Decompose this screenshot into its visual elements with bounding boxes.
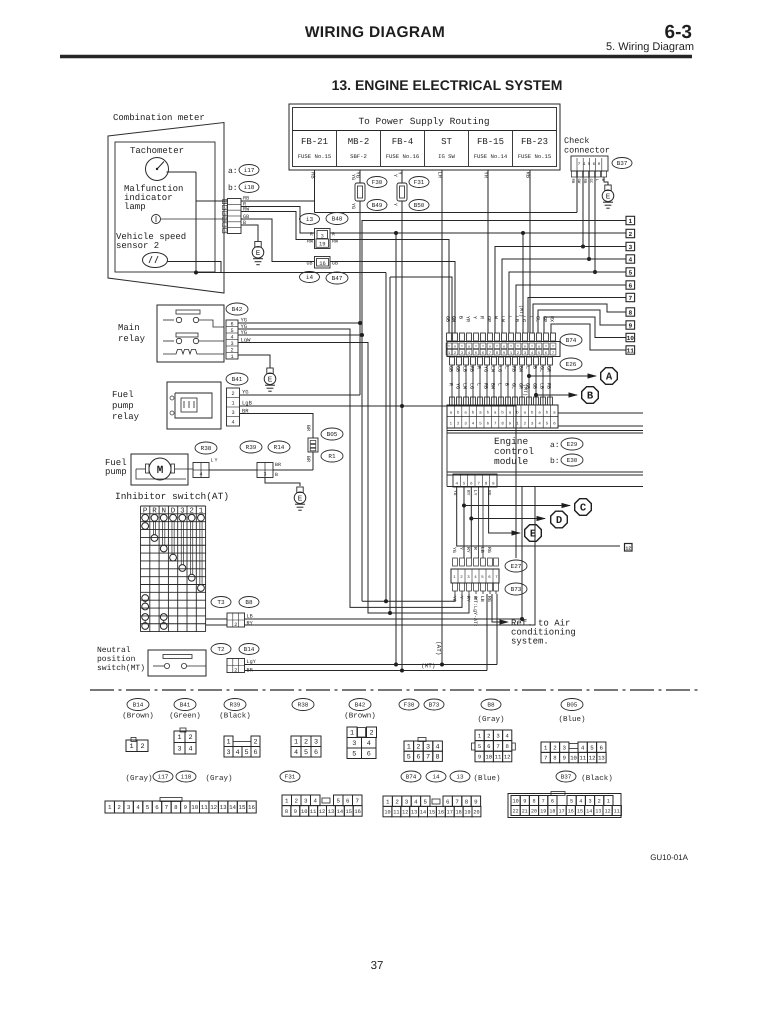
svg-text:Fuel: Fuel bbox=[112, 390, 134, 400]
svg-text:7: 7 bbox=[552, 351, 554, 356]
svg-text:BR: BR bbox=[275, 462, 281, 468]
svg-text:6-3: 6-3 bbox=[665, 22, 692, 43]
main relay internals bbox=[176, 310, 200, 314]
svg-text:6: 6 bbox=[487, 743, 490, 750]
check connector wire to terminal 4 bbox=[588, 177, 590, 259]
svg-text:C: C bbox=[580, 503, 587, 515]
svg-text:A: A bbox=[606, 372, 613, 384]
svg-text:L: L bbox=[476, 383, 482, 386]
ground E check connector bbox=[605, 185, 611, 191]
svg-text:b: b bbox=[224, 206, 226, 211]
svg-text:LY: LY bbox=[472, 490, 477, 496]
svg-text:(Black): (Black) bbox=[219, 712, 251, 721]
wire LB bbox=[245, 618, 523, 620]
svg-text:sensor 2: sensor 2 bbox=[116, 241, 159, 251]
E27 bottom pin cells bbox=[453, 583, 458, 591]
svg-text:b: b bbox=[224, 212, 226, 217]
svg-text:8: 8 bbox=[436, 754, 440, 762]
fuel pump relay box bbox=[167, 382, 221, 429]
legend connector B8 pins bbox=[475, 730, 484, 741]
svg-text:LW: LW bbox=[462, 383, 468, 389]
svg-text:GR: GR bbox=[486, 316, 492, 322]
wire YR from FB-15 bbox=[487, 170, 489, 333]
svg-text:F30: F30 bbox=[404, 702, 415, 709]
svg-text:RX: RX bbox=[549, 316, 555, 322]
connector R38 oval bbox=[195, 442, 217, 454]
svg-text:Y: Y bbox=[458, 547, 464, 550]
svg-text:lamp: lamp bbox=[124, 202, 146, 212]
svg-text:17: 17 bbox=[447, 809, 453, 815]
legend connector B37 pins bbox=[508, 794, 621, 818]
svg-text:B14: B14 bbox=[133, 702, 144, 709]
speed sensor wires bbox=[168, 262, 222, 273]
svg-text:2: 2 bbox=[231, 391, 234, 397]
connector E29 oval bbox=[561, 438, 583, 450]
wire BR to fuse B05 bbox=[273, 469, 313, 471]
svg-text:4: 4 bbox=[136, 804, 140, 811]
svg-text:6: 6 bbox=[314, 749, 318, 757]
ECM bank top pin cells bbox=[447, 333, 452, 341]
svg-text:MB-2: MB-2 bbox=[348, 137, 370, 147]
svg-text:R: R bbox=[310, 232, 313, 238]
svg-text:3: 3 bbox=[628, 244, 632, 251]
legend connector R38 oval bbox=[292, 699, 314, 711]
svg-text:B: B bbox=[275, 472, 278, 478]
svg-text:13: 13 bbox=[411, 809, 417, 815]
inhibitor switch contacts row1 bbox=[142, 514, 149, 521]
svg-text:3: 3 bbox=[177, 746, 181, 754]
svg-text:R1: R1 bbox=[328, 453, 336, 460]
svg-text:4: 4 bbox=[188, 746, 192, 754]
main relay pin strip bbox=[226, 320, 238, 359]
svg-text:WIRING DIAGRAM: WIRING DIAGRAM bbox=[305, 24, 445, 41]
svg-text:a:: a: bbox=[228, 167, 238, 176]
terminal box 9 bbox=[626, 321, 635, 329]
separator chain line bbox=[90, 689, 114, 691]
svg-text:E: E bbox=[606, 194, 611, 202]
svg-text:6: 6 bbox=[346, 797, 350, 804]
svg-text:10: 10 bbox=[485, 754, 492, 761]
terminal box 2 lower bbox=[625, 544, 633, 552]
svg-text:4: 4 bbox=[436, 744, 440, 752]
wire branch R down bbox=[522, 233, 524, 333]
svg-text:2: 2 bbox=[416, 744, 420, 752]
svg-text:3: 3 bbox=[230, 341, 233, 347]
connector i19 bbox=[315, 229, 331, 249]
svg-text:LgB: LgB bbox=[242, 400, 253, 407]
power box column divider bbox=[468, 131, 470, 167]
svg-text:2: 2 bbox=[369, 730, 373, 738]
fuse F31 symbol bbox=[397, 183, 407, 201]
svg-text:FB-23: FB-23 bbox=[521, 137, 548, 147]
legend connector B37 oval bbox=[556, 771, 576, 782]
svg-text:1: 1 bbox=[294, 739, 298, 747]
svg-text:2: 2 bbox=[188, 734, 192, 742]
connector R39/R14 block bbox=[257, 463, 273, 478]
terminal box 7 bbox=[626, 293, 635, 301]
connector B73 oval bbox=[505, 583, 527, 595]
svg-text:YR: YR bbox=[483, 172, 490, 179]
wire terminal 6 bbox=[516, 285, 626, 333]
svg-text:YG: YG bbox=[241, 329, 248, 336]
svg-text:(MT): (MT) bbox=[421, 663, 435, 670]
connector B05 oval bbox=[321, 428, 343, 440]
svg-text:position: position bbox=[97, 655, 136, 664]
wire BR neutral switch bbox=[245, 670, 488, 672]
terminal box 6 bbox=[626, 281, 635, 289]
svg-text:FB-15: FB-15 bbox=[477, 137, 504, 147]
svg-text:B8: B8 bbox=[245, 599, 253, 606]
svg-text:2: 2 bbox=[117, 804, 121, 811]
svg-text:a:: a: bbox=[550, 441, 560, 450]
svg-text:(MT): (MT) bbox=[518, 305, 524, 317]
legend connector B74b oval bbox=[401, 771, 421, 782]
svg-text:14: 14 bbox=[586, 808, 592, 814]
connector B74 oval bbox=[560, 334, 582, 346]
svg-text:b: b bbox=[224, 201, 226, 206]
svg-text:B37: B37 bbox=[617, 160, 628, 167]
svg-text:B05: B05 bbox=[567, 702, 578, 709]
svg-text:E29: E29 bbox=[567, 441, 578, 448]
svg-text:Y: Y bbox=[392, 203, 398, 206]
malfunction indicator lamp symbol bbox=[152, 215, 161, 224]
svg-text:1: 1 bbox=[108, 804, 112, 811]
svg-text:E: E bbox=[298, 496, 303, 504]
wire YG from MB-2 bbox=[359, 170, 361, 183]
svg-text:6: 6 bbox=[551, 798, 554, 804]
connector B49 oval bbox=[367, 200, 387, 211]
svg-text:4: 4 bbox=[314, 797, 318, 804]
svg-text:21: 21 bbox=[522, 808, 528, 814]
svg-text:RY: RY bbox=[465, 547, 471, 553]
wire E bbox=[489, 487, 520, 533]
wire terminal 10 bbox=[544, 317, 626, 338]
svg-text:13: 13 bbox=[598, 755, 605, 762]
legend connector R39 oval bbox=[224, 699, 246, 711]
legend connector R39 pins bbox=[224, 736, 233, 747]
wire YG main relay pin6 bbox=[238, 322, 360, 324]
svg-text:7: 7 bbox=[628, 295, 632, 302]
svg-text:b: b bbox=[224, 218, 226, 223]
svg-text:R: R bbox=[332, 232, 335, 238]
svg-text:IG SW: IG SW bbox=[438, 153, 455, 160]
svg-text:5: 5 bbox=[146, 804, 150, 811]
svg-text:4: 4 bbox=[579, 798, 582, 804]
connector B50 oval bbox=[409, 200, 429, 211]
fuel pump relay internals bbox=[175, 393, 212, 418]
svg-text:Check: Check bbox=[564, 136, 590, 146]
arrow A bbox=[527, 374, 531, 378]
svg-text:16: 16 bbox=[319, 260, 326, 267]
svg-text:F31: F31 bbox=[285, 774, 296, 781]
svg-text:1: 1 bbox=[231, 401, 234, 407]
svg-text:13: 13 bbox=[220, 804, 227, 811]
ref to air conditioning wire bbox=[492, 594, 501, 622]
svg-text:pump: pump bbox=[112, 401, 134, 411]
svg-text:7: 7 bbox=[165, 804, 169, 811]
wire YG main relay pin4 bbox=[238, 334, 362, 336]
svg-text:LG: LG bbox=[469, 383, 475, 389]
fuse B05 symbol bbox=[308, 438, 318, 452]
wire LgW main relay pin3 bbox=[238, 343, 469, 614]
svg-text:6: 6 bbox=[253, 749, 257, 757]
check connector wire to RB bus bbox=[576, 177, 578, 213]
svg-text:LB: LB bbox=[462, 366, 468, 372]
terminal box 3 bbox=[626, 242, 635, 250]
wire terminal 7 bbox=[528, 298, 626, 334]
legend connector i17/i18 pins bbox=[160, 798, 182, 802]
svg-text:1: 1 bbox=[544, 744, 548, 751]
svg-text:4: 4 bbox=[199, 472, 202, 478]
svg-text:19: 19 bbox=[464, 809, 470, 815]
connector strip E27 bbox=[451, 569, 499, 583]
svg-text:GW: GW bbox=[451, 316, 457, 322]
svg-text:R38: R38 bbox=[298, 702, 309, 709]
meter wire RW to connector 19 bbox=[241, 212, 315, 240]
svg-text:3: 3 bbox=[405, 798, 409, 805]
svg-text:GB: GB bbox=[306, 261, 312, 267]
svg-text:RB: RB bbox=[570, 179, 575, 184]
svg-text:9: 9 bbox=[523, 798, 526, 804]
svg-text:GB: GB bbox=[448, 366, 454, 372]
svg-text:i17: i17 bbox=[158, 774, 169, 781]
E27 top pin cells bbox=[453, 558, 458, 566]
connector B14 oval bbox=[239, 644, 259, 655]
svg-text:10: 10 bbox=[627, 335, 635, 342]
svg-text:(Blue): (Blue) bbox=[558, 715, 585, 724]
meter connector block bbox=[228, 199, 242, 234]
svg-text:Inhibitor switch(AT): Inhibitor switch(AT) bbox=[115, 491, 229, 502]
svg-text:BR: BR bbox=[305, 456, 311, 462]
svg-text:B37: B37 bbox=[561, 774, 572, 781]
svg-text:(Green): (Green) bbox=[169, 712, 201, 721]
svg-text:B: B bbox=[504, 383, 510, 386]
ECM connector strip E29 bbox=[447, 405, 558, 428]
svg-text:module: module bbox=[494, 456, 529, 467]
svg-text:E: E bbox=[268, 377, 273, 385]
connector i16 bbox=[315, 257, 331, 269]
check connector ground wire bbox=[604, 177, 608, 185]
svg-text:YG: YG bbox=[350, 174, 356, 180]
legend connector F30 oval bbox=[399, 699, 419, 710]
svg-text:B50: B50 bbox=[414, 202, 425, 209]
legend connector i3b oval bbox=[450, 771, 470, 782]
terminal box 8 bbox=[626, 308, 635, 316]
svg-text:7: 7 bbox=[544, 755, 547, 762]
svg-text:16: 16 bbox=[354, 809, 360, 815]
svg-text:(Brown): (Brown) bbox=[122, 712, 154, 721]
nested corner wire bbox=[389, 277, 391, 613]
svg-text:5: 5 bbox=[407, 754, 411, 762]
meter wire B to ground bbox=[241, 225, 258, 242]
connector T3/B8 block bbox=[227, 613, 245, 627]
svg-text:2: 2 bbox=[304, 739, 308, 747]
ground E meter bbox=[255, 242, 261, 248]
svg-text:9: 9 bbox=[628, 322, 632, 329]
svg-text:RB: RB bbox=[546, 383, 552, 389]
wire terminal 8 bbox=[533, 304, 626, 333]
svg-text:Tachometer: Tachometer bbox=[130, 146, 184, 156]
svg-text:5: 5 bbox=[478, 743, 481, 750]
connector i4 oval bbox=[300, 272, 320, 283]
inhibitor switch lower contacts bbox=[142, 595, 149, 602]
svg-text:R: R bbox=[472, 547, 478, 550]
svg-text:11: 11 bbox=[201, 804, 208, 811]
ground E fuel pump bbox=[297, 487, 303, 493]
svg-text:5. Wiring Diagram: 5. Wiring Diagram bbox=[606, 41, 694, 53]
svg-text:L: L bbox=[497, 383, 503, 386]
bank feeder wires bbox=[478, 487, 480, 558]
ground E main relay bbox=[267, 368, 273, 374]
wire RB from FB-23 bbox=[529, 170, 531, 333]
svg-text:14: 14 bbox=[229, 804, 236, 811]
svg-text:BR: BR bbox=[242, 408, 249, 415]
svg-text:B41: B41 bbox=[180, 702, 191, 709]
svg-text:pump: pump bbox=[105, 467, 127, 477]
svg-text:(Brown): (Brown) bbox=[344, 712, 376, 721]
svg-text:FB-4: FB-4 bbox=[392, 137, 414, 147]
svg-text:RG: RG bbox=[486, 596, 492, 602]
svg-text:FUSE No.15: FUSE No.15 bbox=[298, 153, 332, 160]
svg-text:7: 7 bbox=[455, 798, 459, 805]
wire BR below fuse bbox=[312, 452, 314, 470]
legend connector R38 pins bbox=[291, 736, 301, 747]
svg-text:7: 7 bbox=[542, 798, 545, 804]
connector B8 oval bbox=[239, 597, 259, 608]
svg-text:B: B bbox=[458, 316, 464, 319]
combination meter inner box bbox=[115, 142, 215, 272]
svg-text:3: 3 bbox=[263, 472, 266, 478]
svg-text:B: B bbox=[532, 366, 538, 369]
wire terminal 11 bbox=[551, 324, 626, 350]
legend connector B41 pins bbox=[180, 728, 186, 732]
legend connector i4b oval bbox=[426, 771, 446, 782]
svg-text:B42: B42 bbox=[355, 702, 366, 709]
arrow B bbox=[534, 393, 538, 397]
connector R39 oval bbox=[240, 441, 262, 453]
svg-text:B05: B05 bbox=[327, 431, 338, 438]
svg-text:5: 5 bbox=[628, 269, 632, 276]
svg-text:LW: LW bbox=[490, 366, 496, 372]
svg-text:LB: LB bbox=[539, 383, 545, 389]
svg-text:B73: B73 bbox=[511, 586, 522, 593]
svg-text:(Black): (Black) bbox=[581, 774, 613, 783]
svg-text:6: 6 bbox=[155, 804, 159, 811]
svg-text:T2: T2 bbox=[217, 646, 225, 653]
svg-text:2: 2 bbox=[487, 732, 490, 739]
svg-text:2: 2 bbox=[295, 797, 299, 804]
power box column divider bbox=[512, 131, 514, 167]
svg-text:b: b bbox=[224, 230, 226, 235]
svg-text:11: 11 bbox=[579, 755, 586, 762]
svg-text:F31: F31 bbox=[414, 179, 425, 186]
svg-text:E27: E27 bbox=[511, 563, 522, 570]
svg-text:8: 8 bbox=[532, 798, 535, 804]
wire LR from ST bbox=[441, 170, 443, 665]
ECM lower pin strip bbox=[453, 474, 497, 487]
svg-text:B: B bbox=[587, 391, 594, 403]
svg-text:YR: YR bbox=[465, 316, 471, 322]
svg-text:2: 2 bbox=[230, 347, 233, 353]
legend connector B8 oval bbox=[481, 699, 501, 710]
legend connector B41 oval bbox=[174, 699, 196, 711]
svg-text:5: 5 bbox=[424, 798, 428, 805]
svg-text:10: 10 bbox=[512, 798, 518, 804]
legend connector B14 oval bbox=[127, 699, 149, 711]
legend connector F30/B73 pins bbox=[418, 738, 426, 742]
svg-text:1: 1 bbox=[177, 734, 181, 742]
svg-text:i17: i17 bbox=[244, 167, 255, 174]
svg-text:4: 4 bbox=[414, 798, 418, 805]
svg-text:B73: B73 bbox=[429, 702, 440, 709]
legend connector F31 oval bbox=[280, 771, 300, 782]
svg-text:B74: B74 bbox=[566, 337, 577, 344]
svg-text:switch(MT): switch(MT) bbox=[97, 664, 145, 673]
svg-text:RB: RB bbox=[469, 366, 475, 372]
svg-text:(Gray): (Gray) bbox=[205, 774, 232, 783]
svg-text:R39: R39 bbox=[246, 444, 257, 451]
svg-text:1: 1 bbox=[628, 218, 632, 225]
wire terminal 5 bbox=[509, 272, 626, 333]
svg-text:FB-21: FB-21 bbox=[301, 137, 328, 147]
svg-text:19: 19 bbox=[540, 808, 546, 814]
svg-text:17: 17 bbox=[559, 808, 565, 814]
svg-text:1: 1 bbox=[129, 743, 133, 751]
connector B47 oval bbox=[326, 272, 348, 284]
combination meter trapezoid outline bbox=[108, 123, 224, 294]
svg-text:Y: Y bbox=[472, 316, 478, 319]
svg-text:GL: GL bbox=[511, 383, 517, 389]
svg-text:9: 9 bbox=[184, 804, 188, 811]
svg-text:14: 14 bbox=[337, 809, 343, 815]
fuse F30 symbol bbox=[355, 183, 365, 201]
svg-text:b: b bbox=[224, 224, 226, 229]
svg-text:8: 8 bbox=[628, 309, 632, 316]
legend connector B05 oval bbox=[561, 699, 583, 711]
wire LgB fuel pump relay bbox=[240, 406, 517, 558]
resistor R1 oval bbox=[321, 450, 343, 462]
terminal box 10 bbox=[626, 333, 635, 341]
svg-text:LW: LW bbox=[500, 316, 506, 322]
legend connector B73b oval bbox=[424, 699, 444, 710]
svg-text:4: 4 bbox=[581, 744, 585, 751]
svg-text:FUSE No.15: FUSE No.15 bbox=[518, 153, 552, 160]
svg-text:4: 4 bbox=[230, 334, 233, 340]
svg-text:Neutral: Neutral bbox=[97, 646, 131, 655]
svg-text:B48: B48 bbox=[332, 216, 343, 223]
svg-text:6: 6 bbox=[446, 798, 450, 805]
wire LgY bbox=[245, 664, 498, 666]
svg-text:b:: b: bbox=[228, 184, 238, 193]
check connector wire to terminal 3 bbox=[582, 177, 584, 247]
svg-text:B8: B8 bbox=[487, 702, 495, 709]
svg-text:8: 8 bbox=[506, 743, 509, 750]
terminal box 1 bbox=[626, 216, 635, 224]
svg-text:connector: connector bbox=[564, 146, 610, 156]
svg-text:1: 1 bbox=[230, 354, 233, 360]
vehicle speed sensor symbol bbox=[143, 253, 168, 268]
svg-text:L: L bbox=[528, 316, 534, 319]
svg-text:GL: GL bbox=[535, 316, 541, 322]
svg-text:11: 11 bbox=[393, 809, 399, 815]
terminal box 11 bbox=[626, 346, 635, 354]
svg-text:SBF-2: SBF-2 bbox=[350, 153, 367, 160]
wire to terminal box 2 lower bbox=[457, 487, 620, 546]
meter wire GB to connector 16 bbox=[241, 219, 315, 262]
svg-text:9: 9 bbox=[474, 798, 478, 805]
junction dots wires 2-5 bbox=[521, 231, 525, 235]
svg-text:8: 8 bbox=[465, 798, 469, 805]
